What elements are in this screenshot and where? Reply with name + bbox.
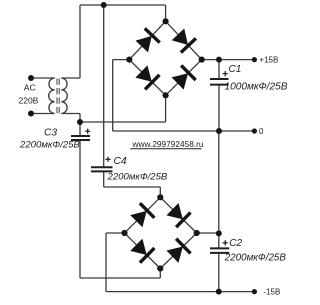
svg-text:C1: C1 <box>229 64 242 75</box>
svg-text:C3: C3 <box>44 127 57 138</box>
svg-text:C4: C4 <box>114 156 127 167</box>
svg-text:1000мкФ/25В: 1000мкФ/25В <box>225 82 288 93</box>
svg-text:-15В: -15В <box>263 288 280 297</box>
svg-text:0: 0 <box>259 127 264 136</box>
svg-text:AC: AC <box>24 83 36 93</box>
svg-text:+15В: +15В <box>259 55 278 64</box>
svg-text:2200мкФ/25В: 2200мкФ/25В <box>19 139 80 150</box>
svg-text:www.299792458.ru: www.299792458.ru <box>132 139 204 149</box>
svg-text:2200мкФ/25В: 2200мкФ/25В <box>107 172 168 183</box>
svg-text:2200мкФ/25В: 2200мкФ/25В <box>224 252 287 263</box>
svg-text:220В: 220В <box>19 96 39 106</box>
svg-text:C2: C2 <box>229 238 242 249</box>
